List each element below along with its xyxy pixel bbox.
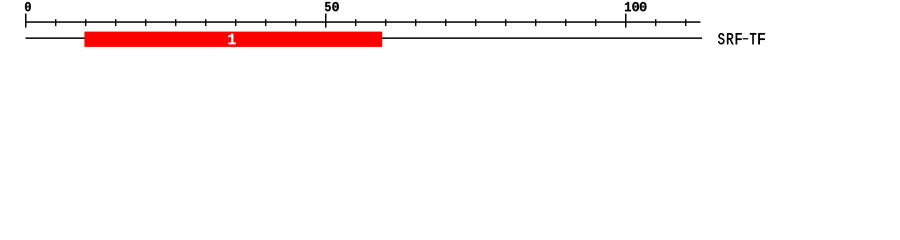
domain number label 1 bbox=[228, 34, 235, 44]
minor ticks every 5 units bbox=[55, 19, 686, 26]
protein sequence domain diagram bbox=[0, 0, 900, 58]
domain box 1 (red) bbox=[84, 32, 382, 47]
ruler label 100 bbox=[625, 2, 647, 11]
hyphen of SRF-TF bbox=[743, 38, 749, 39]
sequence line bbox=[26, 37, 703, 39]
ruler label 50 bbox=[325, 2, 339, 11]
ruler label 0 bbox=[25, 2, 31, 11]
sequence name label SRF-TF bbox=[718, 33, 765, 44]
major tick at 50 bbox=[325, 14, 327, 28]
ruler axis line bbox=[25, 21, 701, 23]
major tick at 0 bbox=[25, 14, 27, 28]
background bbox=[0, 0, 900, 58]
major tick at 100 bbox=[625, 14, 627, 28]
